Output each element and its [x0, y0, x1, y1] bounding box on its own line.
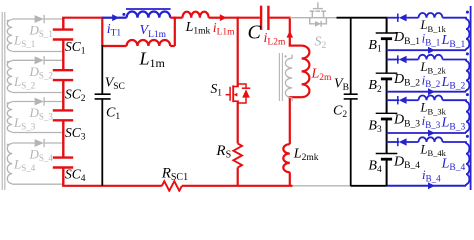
svg-text:C: C: [248, 22, 262, 44]
